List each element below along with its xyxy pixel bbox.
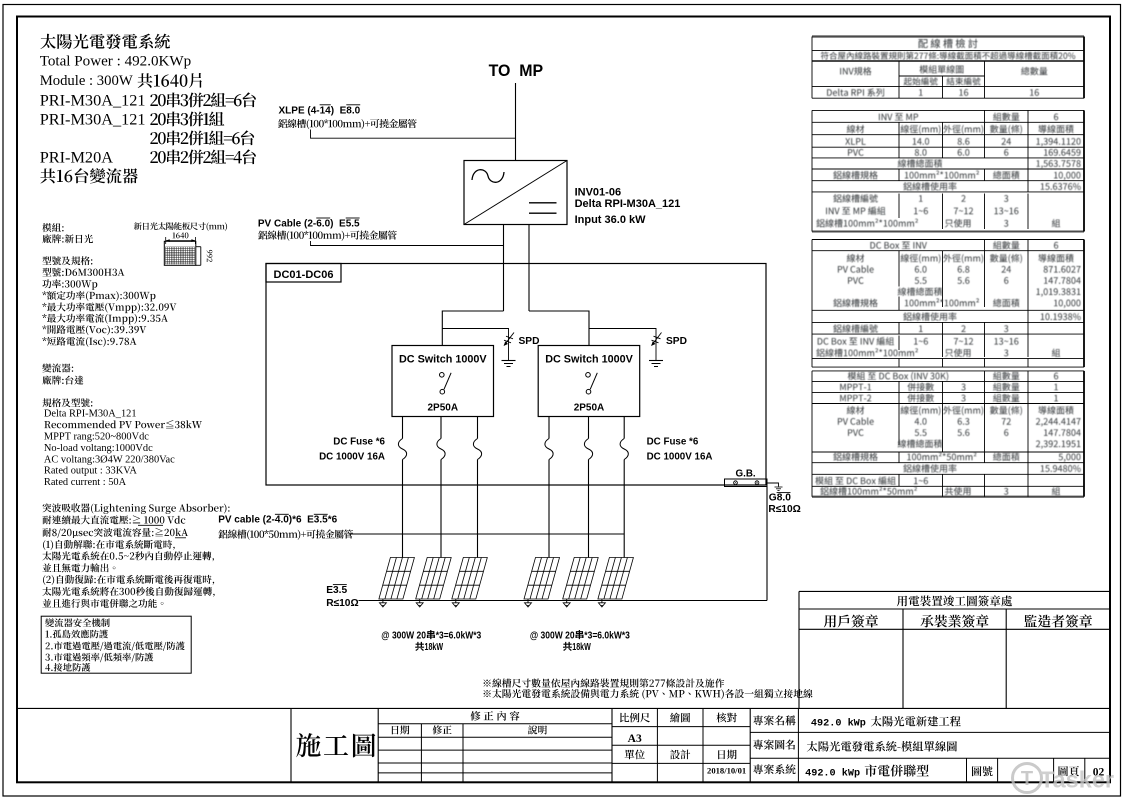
wire SPD branch 1 — [442, 329, 508, 361]
svg-text:2018/10/01: 2018/10/01 — [707, 766, 746, 776]
inverter safety box — [41, 616, 191, 673]
signature table — [799, 591, 1110, 708]
svg-text:DC Fuse *6: DC Fuse *6 — [647, 436, 699, 447]
svg-text:INV01-06: INV01-06 — [575, 186, 621, 198]
svg-text:DC Switch 1000V: DC Switch 1000V — [399, 353, 487, 365]
ground symbol panel 3 — [455, 599, 457, 603]
wire string 3 with DC fuse — [477, 417, 479, 439]
svg-text:Rated current : 50A: Rated current : 50A — [44, 477, 127, 488]
PV panel string 5 — [563, 558, 599, 600]
svg-text:Tasker: Tasker — [1040, 767, 1114, 793]
svg-text:Delta RPI-M30A_121: Delta RPI-M30A_121 — [44, 408, 137, 419]
wire string 5 with DC fuse — [588, 417, 590, 439]
svg-text:@ 300W 20: @ 300W 20 — [530, 630, 575, 641]
svg-text:PRI-M30A_121: PRI-M30A_121 — [40, 109, 146, 128]
ground symbol panel 4 — [527, 599, 529, 603]
wire to DC switch 2 — [529, 311, 589, 346]
module panel size label — [134, 222, 227, 231]
wire ground stub — [767, 483, 779, 487]
note text 1 — [484, 678, 725, 687]
svg-text:R≤10Ω: R≤10Ω — [768, 504, 800, 515]
note text 2 — [484, 689, 813, 699]
svg-text:18kW: 18kW — [425, 642, 444, 653]
svg-text:SPD: SPD — [519, 336, 540, 347]
wiring duct review table text — [815, 39, 1080, 496]
combiner box DC01-DC06 outline — [266, 264, 766, 486]
wire string 2 with DC fuse — [440, 417, 442, 439]
svg-text:PRI-M30A_121: PRI-M30A_121 — [40, 90, 146, 109]
svg-text:A3: A3 — [628, 733, 642, 745]
signature table text — [897, 595, 1012, 606]
svg-text:2P50A: 2P50A — [574, 403, 605, 414]
surge absorber text block — [42, 503, 229, 608]
PV panel string 6 — [598, 558, 634, 600]
wiring duct review table — [812, 37, 1084, 497]
svg-text:G8.0: G8.0 — [769, 493, 791, 504]
wire SPD branch 2 — [589, 329, 656, 361]
ground symbol panel 6 — [601, 599, 603, 603]
label DC01-DC06 — [266, 264, 341, 283]
svg-text:Input 36.0 kW: Input 36.0 kW — [575, 214, 647, 226]
ground symbol panel 1 — [382, 599, 384, 603]
wire DC inverter right — [528, 225, 530, 312]
svg-text:*3=6.0kW*3: *3=6.0kW*3 — [584, 630, 630, 641]
PV panel string 2 — [416, 558, 452, 600]
DC switch 2 — [538, 346, 640, 417]
wire ground down right — [766, 487, 768, 601]
svg-text:Delta RPI-M30A_121: Delta RPI-M30A_121 — [575, 198, 681, 210]
svg-text:Module : 300W: Module : 300W — [40, 73, 133, 89]
watermark — [1013, 764, 1115, 793]
svg-text:Total Power : 492.0KWp: Total Power : 492.0KWp — [40, 54, 192, 70]
svg-text:XLPE (4-14) E8.0: XLPE (4-14) E8.0 — [279, 106, 361, 117]
svg-text:DC 1000V 16A: DC 1000V 16A — [647, 451, 713, 462]
svg-text:18kW: 18kW — [572, 642, 591, 653]
svg-text:PRI-M20A: PRI-M20A — [40, 147, 114, 166]
svg-text:PV cable (2-4.0)*6 E3.5*6: PV cable (2-4.0)*6 E3.5*6 — [218, 515, 337, 526]
svg-text:492.0 kWp: 492.0 kWp — [811, 718, 866, 730]
svg-text:No-load voltang:1000Vdc: No-load voltang:1000Vdc — [44, 443, 153, 454]
svg-text:E3.5: E3.5 — [326, 585, 347, 596]
title block — [17, 708, 1110, 782]
svg-text:*3=6.0kW*3: *3=6.0kW*3 — [436, 630, 482, 641]
surge protector SPD2 — [652, 333, 662, 346]
PV panel string 4 — [524, 558, 560, 600]
svg-text:@ 300W 20: @ 300W 20 — [381, 630, 426, 641]
title text block — [40, 34, 256, 184]
DC switch 1 — [392, 346, 494, 417]
svg-text:PV Cable (2-6.0) E5.5: PV Cable (2-6.0) E5.5 — [258, 219, 360, 230]
title block text — [296, 733, 375, 757]
wire grounding bus — [359, 600, 768, 602]
svg-text:TO MP: TO MP — [489, 62, 544, 80]
ground symbol panel 5 — [566, 599, 568, 603]
wire leader PV cable 2-4.0 — [349, 533, 625, 535]
module panel dimension 992 — [196, 246, 201, 248]
module panel dimension 1640 — [173, 233, 189, 239]
surge protector SPD1 — [504, 333, 514, 346]
svg-text:2P50A: 2P50A — [428, 403, 459, 414]
svg-text:DC Switch 1000V: DC Switch 1000V — [545, 353, 633, 365]
svg-text:DC 1000V 16A: DC 1000V 16A — [319, 451, 385, 462]
wire to DC switch 1 — [442, 311, 503, 346]
inverter INV01-06 — [464, 161, 567, 225]
svg-text:DC01-DC06: DC01-DC06 — [274, 269, 334, 281]
wire string 1 with DC fuse — [402, 417, 404, 439]
ground symbol at G.B. — [775, 487, 783, 491]
wire leader PV cable — [311, 241, 504, 246]
wire string 4 with DC fuse — [548, 417, 550, 439]
svg-text:DC Fuse *6: DC Fuse *6 — [333, 436, 385, 447]
module spec text block — [42, 223, 202, 488]
svg-text:R≤10Ω: R≤10Ω — [326, 598, 358, 609]
svg-text:T: T — [1021, 768, 1033, 790]
PV panel string 3 — [452, 558, 488, 600]
svg-text:492.0 kWp: 492.0 kWp — [805, 768, 860, 780]
module panel icon — [164, 241, 196, 265]
wire AC to MP — [515, 83, 517, 161]
ground symbol panel 2 — [419, 599, 421, 603]
wire leader XLPE — [311, 130, 516, 139]
wire DC inverter left — [503, 225, 505, 312]
svg-text:G.B.: G.B. — [736, 468, 756, 479]
svg-text:SPD: SPD — [666, 336, 687, 347]
svg-text:AC voltang:3Ø4W 220/380Vac: AC voltang:3Ø4W 220/380Vac — [44, 454, 175, 465]
wire string 6 with DC fuse — [623, 417, 625, 439]
PV panel string 1 — [379, 558, 415, 600]
svg-text:Rated output : 33KVA: Rated output : 33KVA — [44, 466, 138, 477]
svg-text:MPPT rang:520~800Vdc: MPPT rang:520~800Vdc — [44, 432, 149, 443]
